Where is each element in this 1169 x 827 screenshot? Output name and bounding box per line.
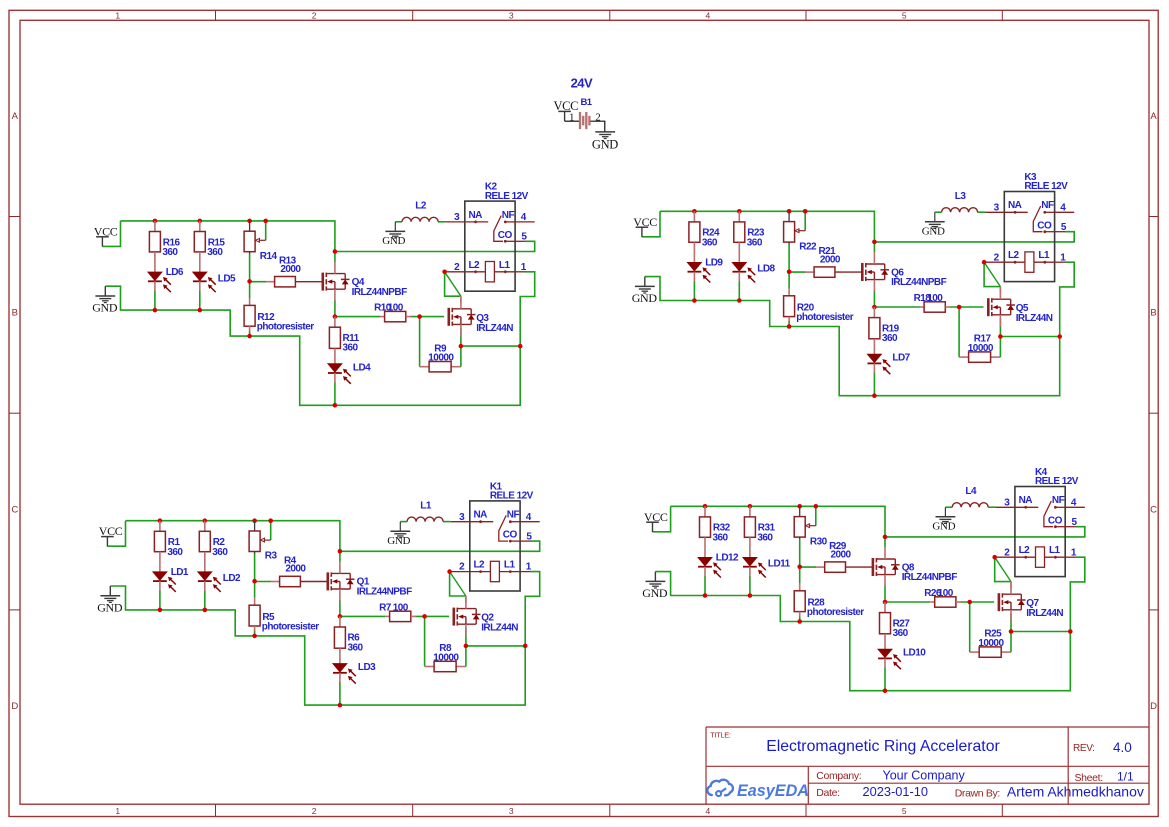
svg-text:VCC: VCC (554, 99, 579, 113)
pin 1 coil L1 (1045, 556, 1066, 558)
svg-text:photoresister: photoresister (796, 312, 853, 323)
junction at (694,300) (692, 298, 697, 303)
wire source to R7 (340, 615, 385, 617)
svg-text:GND: GND (97, 600, 123, 614)
svg-text:NA: NA (1008, 200, 1022, 211)
wire K1 pin5 to Q drain node (340, 541, 540, 551)
resistor R25 value 10000 (978, 629, 1004, 658)
wire R9 right (451, 346, 461, 367)
svg-text:GND: GND (382, 235, 405, 247)
inductor L3 (942, 191, 978, 212)
svg-text:C: C (1150, 504, 1157, 515)
ground GND at battery (592, 132, 618, 152)
junction at (200,310) (198, 308, 203, 313)
junction at (205,610) (203, 608, 208, 613)
svg-text:EasyEDA: EasyEDA (737, 782, 809, 800)
wire R12 top (249, 281, 251, 298)
svg-text:GND: GND (932, 520, 955, 532)
wire LD11 cathode (749, 576, 751, 596)
svg-text:Your Company: Your Company (883, 768, 966, 782)
transistor Q3 IRLZ44N (449, 296, 513, 336)
junction at (205,521) (203, 518, 208, 523)
junction at (250,336) (247, 334, 252, 339)
wire Q7 source rail (1011, 631, 1070, 633)
pin 2 coil L2 (446, 271, 465, 273)
LED LD1 (153, 567, 189, 592)
wire Q6 source node (873, 290, 875, 307)
junction at (155,310) (153, 308, 158, 313)
resistor R19 (869, 307, 900, 354)
svg-text:CO: CO (1037, 220, 1052, 231)
wire VCC feed (653, 506, 671, 532)
junction at (420,317) (417, 314, 422, 319)
junction at (705,506) (703, 504, 708, 509)
svg-text:R22: R22 (799, 241, 817, 252)
wire R3 bottom node (254, 553, 256, 581)
svg-text:L3: L3 (955, 191, 967, 202)
resistor R21 value 2000 (806, 246, 863, 277)
battery B1 (569, 97, 600, 129)
LED LD4 (328, 362, 371, 384)
junction at (800,567) (797, 565, 802, 570)
resistor R27 (880, 602, 911, 649)
wire LD6 cathode (154, 291, 156, 311)
transistor Q2 IRLZ44N (454, 596, 518, 636)
svg-text:IRLZ44N: IRLZ44N (1016, 313, 1053, 324)
svg-text:4.0: 4.0 (1113, 740, 1132, 755)
wire R3 wiper (270, 521, 272, 540)
wire relay pin2 to Q5 drain (984, 262, 1000, 286)
photoresistor R20 (784, 288, 854, 323)
transistor Q7 IRLZ44N (999, 582, 1063, 622)
wire R10 to Q3 gate (411, 316, 445, 318)
svg-text:24V: 24V (571, 75, 593, 90)
LED LD10 (878, 648, 926, 670)
wire R14 bottom node (249, 254, 251, 282)
junction at (461,346) (459, 344, 464, 349)
junction at (525,646) (523, 644, 528, 649)
svg-text:GND: GND (632, 291, 658, 305)
pin 4 NF (505, 221, 515, 223)
svg-text:IRLZ44NPBF: IRLZ44NPBF (902, 572, 958, 583)
svg-text:LD10: LD10 (903, 648, 926, 659)
svg-text:360: 360 (162, 247, 178, 258)
wire R20 bottom (788, 321, 790, 327)
wire R30 bottom node (799, 539, 801, 567)
svg-text:R14: R14 (260, 251, 278, 262)
svg-text:D: D (11, 701, 18, 712)
resistor R9 value 10000 (428, 343, 454, 372)
svg-text:photoresister: photoresister (262, 621, 319, 632)
junction at (255,581) (252, 579, 257, 584)
wire relay pin1 route (520, 272, 535, 346)
LED LD6 (148, 267, 184, 292)
switch lever (494, 216, 503, 242)
wire top rail (671, 506, 885, 537)
wire relay pin2 to Q3 drain (445, 272, 461, 296)
pin 2 coil L2 (451, 571, 470, 573)
svg-text:IRLZ44N: IRLZ44N (476, 323, 513, 334)
wire K3 pin5 to Q drain node (874, 232, 1074, 242)
pin 4 NF (510, 521, 520, 523)
svg-text:L4: L4 (965, 486, 977, 497)
svg-text:R30: R30 (810, 536, 828, 547)
svg-text:2000: 2000 (820, 254, 841, 265)
wire R9 left (420, 317, 430, 367)
svg-text:100: 100 (393, 602, 409, 613)
svg-text:Artem Akhmedkhanov: Artem Akhmedkhanov (1007, 784, 1144, 800)
resistor R11 (329, 317, 359, 364)
junction at (885,537) (883, 535, 888, 540)
LED LD2 (198, 572, 241, 592)
wire node to R21 (789, 271, 805, 273)
wire LD3 bottom (339, 682, 341, 705)
wire Q5 source lead (999, 318, 1001, 336)
svg-text:Electromagnetic Ring Accelerat: Electromagnetic Ring Accelerator (766, 738, 1000, 755)
resistor R24 (689, 211, 720, 262)
relay coil (490, 561, 499, 581)
resistor R18 value 100 (914, 293, 951, 312)
wire GND rail (645, 277, 1060, 396)
transistor Q1 IRLZ44NPBF (328, 561, 412, 601)
pin 4 NF (1045, 211, 1055, 213)
wire L2 leads (395, 221, 445, 223)
LED LD12 (698, 552, 739, 577)
junction at (1011,632) (1009, 629, 1014, 634)
wire Q3 source rail (461, 345, 520, 347)
junction at (445,272) (442, 270, 447, 275)
wire top rail (126, 521, 340, 552)
svg-text:1: 1 (569, 112, 574, 124)
svg-text:2: 2 (312, 806, 317, 816)
junction at (335,405) (333, 403, 338, 408)
svg-text:LD7: LD7 (892, 353, 910, 364)
svg-text:100: 100 (388, 303, 404, 314)
svg-text:C: C (11, 504, 18, 515)
junction at (335,317) (333, 314, 338, 319)
svg-text:IRLZ44NPBF: IRLZ44NPBF (891, 277, 947, 288)
svg-text:2000: 2000 (831, 549, 852, 560)
wire R26 to Q7 gate (961, 601, 995, 603)
svg-text:360: 360 (702, 238, 718, 249)
wire R17 right (991, 337, 1001, 358)
resistor R23 (734, 211, 765, 262)
svg-text:GND: GND (642, 586, 668, 600)
junction at (750,506) (748, 504, 753, 509)
svg-text:360: 360 (757, 533, 773, 544)
wire Q1 drain (339, 551, 341, 562)
svg-text:10000: 10000 (968, 343, 994, 354)
relay body (1015, 487, 1065, 577)
wire source to R18 (874, 306, 919, 308)
svg-text:RELE 12V: RELE 12V (1024, 181, 1068, 192)
svg-text:GND: GND (92, 301, 118, 315)
resistor R6 (334, 616, 363, 663)
junction at (466,646) (464, 644, 469, 649)
svg-text:NA: NA (469, 210, 483, 221)
EasyEDA logo (707, 780, 809, 800)
svg-text:LD6: LD6 (166, 267, 184, 278)
junction at (885,691) (883, 688, 888, 693)
svg-text:A: A (1150, 111, 1157, 122)
svg-text:10000: 10000 (428, 353, 454, 364)
wire relay pin1 route (525, 572, 540, 646)
svg-text:B: B (1150, 308, 1156, 319)
wire top rail (660, 211, 874, 242)
svg-text:NA: NA (474, 510, 488, 521)
relay body (1004, 192, 1054, 282)
title block texts (710, 730, 1144, 799)
wire Q3 source lead (460, 328, 462, 346)
wire Q5 source rail (1000, 336, 1059, 338)
VCC symbol (94, 224, 118, 246)
svg-text:LD1: LD1 (171, 567, 189, 578)
wire Q2 source rail (466, 645, 525, 647)
junction at (816,506) (814, 504, 819, 509)
svg-text:360: 360 (207, 247, 223, 258)
wire relay pin1 route (1070, 557, 1085, 631)
wire Q1 source node (339, 600, 341, 617)
svg-text:360: 360 (348, 643, 364, 654)
junction at (789,326) (787, 324, 792, 329)
junction at (800,622) (797, 619, 802, 624)
ground GND at L1 (387, 522, 410, 547)
wire L1 leads (400, 521, 450, 523)
wire top rail (121, 221, 335, 252)
relay K2 RELE 12V (446, 182, 535, 292)
svg-text:RELE 12V: RELE 12V (1035, 476, 1079, 487)
wire VCC feed (102, 221, 120, 247)
wire R12 bottom (249, 331, 251, 337)
wire source to R26 (885, 601, 930, 603)
svg-text:100: 100 (938, 588, 954, 599)
wire node to R13 (250, 281, 266, 283)
pin 3 NA (451, 521, 470, 523)
svg-text:GND: GND (922, 225, 945, 237)
resistor R13 value 2000 (266, 256, 323, 287)
LED LD3 (333, 662, 376, 684)
wire L3 leads (935, 211, 985, 213)
ground GND at L2 (382, 222, 405, 247)
junction at (1070,632) (1068, 629, 1073, 634)
svg-text:LD8: LD8 (757, 264, 775, 275)
resistor R10 value 100 (374, 303, 411, 322)
VCC symbol (99, 524, 123, 546)
svg-text:L2: L2 (469, 260, 481, 271)
svg-text:VCC: VCC (99, 524, 123, 538)
pin 5 CO (1043, 230, 1046, 233)
junction at (155,221) (153, 219, 158, 224)
relay body (470, 501, 520, 591)
svg-text:L1: L1 (504, 560, 516, 571)
inductor L4 (952, 486, 988, 507)
junction at (984,262) (982, 260, 987, 265)
wire Q6 drain (873, 242, 875, 253)
svg-text:NF: NF (507, 510, 520, 521)
svg-text:2: 2 (312, 11, 317, 21)
junction at (885,602) (883, 600, 888, 605)
svg-text:2000: 2000 (285, 564, 306, 575)
pin 3 NA (996, 506, 1015, 508)
svg-text:CO: CO (1048, 515, 1063, 526)
svg-text:NF: NF (502, 210, 515, 221)
pin 5 CO (509, 540, 512, 543)
junction at (959,307) (957, 305, 962, 310)
junction at (266,221) (263, 219, 268, 224)
svg-text:photoresister: photoresister (807, 607, 864, 618)
wire LD2 cathode (204, 590, 206, 610)
svg-text:10000: 10000 (433, 653, 459, 664)
switch lever (1033, 206, 1042, 232)
transistor Q8 IRLZ44NPBF (873, 547, 957, 587)
svg-text:360: 360 (893, 628, 909, 639)
wire source to R10 (335, 316, 380, 318)
wire R28 bottom (799, 616, 801, 622)
svg-text:VCC: VCC (644, 510, 668, 524)
svg-text:360: 360 (212, 547, 228, 558)
svg-text:LD5: LD5 (218, 273, 236, 284)
VCC symbol (644, 510, 668, 532)
pin 1 coil L1 (499, 571, 520, 573)
junction at (874,307) (872, 305, 877, 310)
svg-text:CO: CO (498, 230, 513, 241)
wire LD7 bottom (873, 372, 875, 395)
svg-text:10000: 10000 (978, 638, 1004, 649)
LED LD8 (732, 263, 775, 283)
wire relay pin2 to Q2 drain (450, 572, 466, 596)
resistor R31 (744, 506, 775, 557)
junction at (750,596) (748, 593, 753, 598)
svg-text:CO: CO (503, 530, 518, 541)
svg-text:B1: B1 (581, 97, 593, 108)
svg-text:R3: R3 (265, 551, 278, 562)
svg-text:LD3: LD3 (358, 662, 376, 673)
LED LD9 (688, 257, 724, 282)
wire R25 left (970, 602, 980, 652)
potentiometer R30 (794, 506, 827, 547)
junction at (1060,336) (1057, 334, 1062, 339)
junction at (520,346) (518, 344, 523, 349)
junction at (450,572) (447, 569, 452, 574)
resistor R8 value 10000 (433, 643, 459, 672)
junction at (255,636) (252, 634, 257, 639)
svg-text:360: 360 (343, 343, 359, 354)
svg-text:L2: L2 (1008, 250, 1020, 261)
wire LD10 bottom (884, 667, 886, 690)
wire R7 to Q2 gate (416, 615, 450, 617)
svg-text:1: 1 (115, 806, 120, 816)
svg-text:IRLZ44N: IRLZ44N (481, 623, 518, 634)
wire R30 wiper (815, 506, 817, 525)
junction at (805,211) (803, 209, 808, 214)
wire R18 to Q5 gate (950, 306, 984, 308)
junction at (250,221) (247, 219, 252, 224)
LED LD11 (743, 558, 791, 578)
wire R14 wiper (265, 221, 267, 240)
svg-text:VCC: VCC (633, 215, 657, 229)
svg-text:RELE 12V: RELE 12V (490, 491, 534, 502)
svg-text:RELE 12V: RELE 12V (485, 191, 529, 202)
junction at (789,211) (787, 209, 792, 214)
junction at (739,211) (737, 209, 742, 214)
inductor L2 (402, 201, 438, 222)
wire LD8 cathode (738, 281, 740, 301)
svg-text:1: 1 (115, 11, 120, 21)
ground GND left (92, 286, 118, 314)
svg-text:VCC: VCC (94, 224, 118, 238)
svg-text:LD2: LD2 (223, 573, 241, 584)
junction at (970,602) (967, 600, 972, 605)
photoresistor R28 (794, 583, 864, 618)
resistor R26 value 100 (924, 588, 961, 607)
wire Q8 source node (884, 585, 886, 602)
ground GND at L4 (932, 507, 955, 532)
resistor R1 (154, 521, 183, 572)
title block frame (706, 727, 1149, 804)
svg-text:Sheet:: Sheet: (1075, 772, 1103, 784)
wire Q8 drain (884, 537, 886, 548)
switch lever (499, 515, 508, 541)
junction at (340,551) (338, 549, 343, 554)
junction at (739,300) (737, 298, 742, 303)
junction at (340,705) (338, 703, 343, 708)
ground GND left (642, 572, 668, 600)
svg-text:NA: NA (1019, 495, 1033, 506)
wire battery pin 2 to GND (590, 121, 604, 132)
LED LD7 (868, 353, 911, 375)
junction at (995,557) (992, 555, 997, 560)
wire R22 bottom node (788, 244, 790, 272)
wire VCC to battery pin 1 (565, 120, 579, 122)
svg-text:R7: R7 (379, 602, 392, 613)
junction at (335,252) (333, 249, 338, 254)
svg-text:Date:: Date: (816, 787, 839, 799)
junction at (874,242) (872, 240, 877, 245)
svg-text:LD11: LD11 (768, 559, 791, 570)
wire Q4 source node (334, 300, 336, 317)
wire Q7 source lead (1010, 613, 1012, 631)
ground GND at L3 (922, 212, 945, 237)
wire Q2 source lead (465, 628, 467, 646)
svg-text:3: 3 (509, 806, 514, 816)
pin 4 NF (1055, 506, 1065, 508)
junction at (271,521) (268, 518, 273, 523)
junction at (1000,336) (998, 334, 1003, 339)
pin 5 CO (1054, 525, 1057, 528)
wire VCC feed (642, 211, 660, 237)
resistor R29 value 2000 (816, 541, 873, 572)
svg-text:IRLZ44N: IRLZ44N (1026, 608, 1063, 619)
svg-text:360: 360 (747, 238, 763, 249)
svg-text:L1: L1 (1038, 250, 1050, 261)
wire node to R29 (800, 566, 816, 568)
svg-text:LD9: LD9 (705, 257, 723, 268)
wire LD12 cathode (704, 576, 706, 596)
svg-text:4: 4 (706, 806, 711, 816)
junction at (340,616) (338, 614, 343, 619)
junction at (255,521) (252, 518, 257, 523)
wire GND rail (110, 586, 525, 705)
potentiometer R3 (249, 521, 277, 562)
svg-text:L2: L2 (474, 560, 486, 571)
pin 1 coil L1 (1034, 261, 1055, 263)
svg-text:5: 5 (902, 806, 907, 816)
photoresistor R12 (244, 298, 314, 333)
svg-text:360: 360 (713, 533, 729, 544)
transistor Q6 IRLZ44NPBF (862, 252, 946, 292)
junction at (160,610) (158, 608, 163, 613)
wire R8 left (425, 616, 435, 666)
